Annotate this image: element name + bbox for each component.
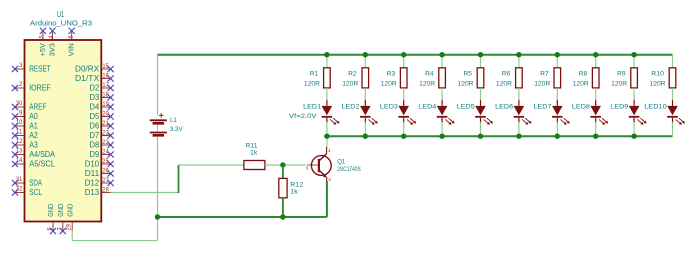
svg-text:2SC1740S: 2SC1740S — [337, 166, 361, 173]
U1 left pin A0 (pin 9) — [12, 109, 38, 121]
wire LED9 to cathode rail — [633, 122, 635, 136]
svg-text:R1: R1 — [310, 70, 319, 77]
U1 left pin A1 (pin 10) — [12, 119, 38, 131]
U1 bottom pin GND (pin 6) — [47, 204, 56, 234]
U1 right pin D1/TX (pin 16) — [75, 72, 113, 83]
svg-text:120R: 120R — [496, 80, 512, 87]
wire rail to R4 — [441, 55, 443, 68]
svg-text:14: 14 — [16, 157, 23, 164]
led LED2 — [342, 100, 378, 125]
svg-text:6: 6 — [47, 227, 54, 231]
svg-text:IOREF: IOREF — [29, 84, 51, 93]
U1 right pin D5 (pin 20) — [90, 110, 114, 121]
U1 top pin 3V3 (pin 4) — [48, 28, 56, 56]
svg-text:A4/SDA: A4/SDA — [29, 150, 55, 159]
svg-text:AREF: AREF — [29, 103, 46, 112]
junction cathode rail column LED5 — [478, 134, 483, 139]
svg-text:SDA: SDA — [29, 179, 42, 188]
U1 right pin D6 (pin 21) — [90, 120, 114, 131]
svg-text:R4: R4 — [425, 70, 434, 77]
svg-text:D3: D3 — [90, 93, 100, 102]
wire rail to R8 — [595, 55, 597, 68]
svg-text:R12: R12 — [290, 181, 303, 188]
battery L1 3.3V — [150, 113, 183, 135]
svg-text:1k: 1k — [250, 149, 258, 156]
svg-text:D0/RX: D0/RX — [75, 65, 100, 74]
wire battery negative down — [157, 136, 159, 217]
svg-text:15: 15 — [102, 63, 109, 70]
svg-text:5: 5 — [39, 35, 46, 39]
wire R4 to LED4 — [441, 88, 443, 100]
svg-text:12: 12 — [16, 138, 23, 145]
U1 right pin D12 (pin 27) — [85, 177, 114, 188]
U1 right pin D0/RX (pin 15) — [75, 63, 113, 74]
svg-text:7: 7 — [56, 227, 63, 231]
svg-text:8: 8 — [67, 35, 74, 39]
led LED5 — [457, 100, 493, 125]
svg-text:Q1: Q1 — [337, 158, 345, 165]
svg-text:2: 2 — [19, 81, 23, 88]
transistor Q1 2SC1740S — [306, 147, 362, 183]
svg-text:9: 9 — [19, 109, 23, 116]
svg-text:D2: D2 — [90, 84, 100, 93]
wire rail to R9 — [633, 55, 635, 68]
wire R7 to LED7 — [556, 88, 558, 100]
svg-text:R6: R6 — [502, 70, 511, 77]
svg-text:LED9: LED9 — [610, 104, 628, 111]
junction top rail column R5 — [478, 52, 483, 57]
wire R10 to LED10 — [672, 88, 674, 100]
svg-text:D12: D12 — [85, 179, 100, 188]
U1 top pin VIN (pin 8) — [67, 28, 75, 56]
U1 right pin D2 (pin 17) — [90, 82, 114, 93]
svg-text:D4: D4 — [90, 103, 100, 112]
resistor R11 1k — [244, 142, 265, 169]
led LED10 — [644, 100, 685, 125]
resistor R8 120R — [573, 68, 599, 88]
svg-text:120R: 120R — [573, 80, 589, 87]
wire rail to R6 — [518, 55, 520, 68]
svg-text:22: 22 — [102, 129, 109, 136]
led LED8 — [572, 100, 608, 125]
bottom ground rail — [158, 182, 327, 218]
U1 bottom pin GND (pin 29) — [66, 204, 75, 231]
svg-text:120R: 120R — [534, 80, 550, 87]
U1 right pin D10 (pin 25) — [85, 158, 114, 169]
U1 left pin A4/SDA (pin 13) — [12, 147, 55, 159]
svg-text:26: 26 — [102, 167, 109, 174]
svg-text:27: 27 — [102, 177, 109, 184]
junction cathode rail column LED7 — [555, 134, 560, 139]
wire R8 to LED8 — [595, 88, 597, 100]
led LED6 — [495, 100, 531, 125]
U1 left pin RESET (pin 3) — [12, 62, 51, 74]
resistor R6 120R — [496, 68, 522, 88]
svg-text:3V3: 3V3 — [49, 43, 56, 56]
led LED1 — [289, 100, 340, 125]
wire R9 to LED9 — [633, 88, 635, 100]
wire Q1 collector to cathode rail — [326, 136, 328, 147]
svg-text:D6: D6 — [90, 122, 100, 131]
wire D13 to R11 net — [111, 165, 244, 193]
wire LED10 to cathode rail — [672, 122, 674, 136]
U1 left pin A5/SCL (pin 14) — [12, 157, 55, 169]
svg-text:R7: R7 — [540, 70, 549, 77]
svg-text:VIN: VIN — [69, 43, 76, 56]
U1 right pin D9 (pin 24) — [90, 148, 114, 159]
resistor R9 120R — [611, 68, 637, 88]
svg-text:1k: 1k — [290, 188, 298, 195]
svg-text:120R: 120R — [381, 80, 397, 87]
svg-text:R2: R2 — [348, 70, 357, 77]
wire R3 to LED3 — [403, 88, 405, 100]
U1 left pin SDA (pin 31) — [12, 176, 42, 188]
U1 right pin D4 (pin 19) — [90, 101, 114, 112]
resistor R2 120R — [342, 68, 368, 88]
junction top rail column R1 — [324, 52, 329, 57]
svg-text:LED8: LED8 — [572, 104, 590, 111]
led cathode rail — [327, 135, 673, 137]
svg-text:120R: 120R — [342, 80, 358, 87]
svg-text:D8: D8 — [90, 141, 100, 150]
svg-text:D9: D9 — [90, 150, 100, 159]
svg-text:11: 11 — [16, 128, 23, 135]
svg-text:120R: 120R — [419, 80, 435, 87]
resistor R1 120R — [304, 68, 330, 88]
svg-text:R10: R10 — [651, 70, 664, 77]
svg-text:LED10: LED10 — [644, 104, 667, 111]
junction node R11/R12/Q1 base — [280, 162, 285, 167]
U1 left pin A2 (pin 11) — [12, 128, 38, 140]
svg-text:R5: R5 — [464, 70, 473, 77]
junction cathode rail column LED8 — [593, 134, 598, 139]
svg-text:A1: A1 — [29, 122, 38, 131]
U1 right pin D13 (pin 28) — [85, 186, 111, 197]
svg-text:D13: D13 — [85, 188, 100, 197]
svg-text:A5/SCL: A5/SCL — [29, 160, 55, 169]
wire rail to R1 — [326, 55, 328, 68]
resistor R12 1k — [279, 178, 304, 197]
svg-text:L1: L1 — [170, 117, 177, 124]
svg-text:D11: D11 — [85, 169, 100, 178]
svg-text:19: 19 — [102, 101, 109, 108]
resistor R3 120R — [381, 68, 407, 88]
wire R11 to node base — [265, 164, 306, 166]
svg-text:D10: D10 — [85, 160, 100, 169]
resistor R5 120R — [458, 68, 484, 88]
svg-text:20: 20 — [102, 110, 109, 117]
U1 right pin D7 (pin 22) — [90, 129, 114, 140]
svg-text:LED2: LED2 — [342, 104, 360, 111]
svg-text:+5V: +5V — [40, 43, 47, 57]
wire LED7 to cathode rail — [556, 122, 558, 136]
svg-text:16: 16 — [102, 72, 109, 79]
svg-text:1: 1 — [328, 148, 331, 154]
junction cathode rail column LED2 — [363, 134, 368, 139]
junction cathode rail / Q1 collector — [324, 134, 329, 139]
svg-text:D1/TX: D1/TX — [75, 74, 100, 83]
U1 left pin A3 (pin 12) — [12, 138, 38, 150]
svg-text:21: 21 — [102, 120, 109, 127]
wire R2 to LED2 — [364, 88, 366, 100]
junction top rail column R4 — [439, 52, 444, 57]
resistor R4 120R — [419, 68, 445, 88]
svg-text:RESET: RESET — [29, 65, 51, 74]
junction top rail column R8 — [593, 52, 598, 57]
U1 top pin +5V (pin 5) — [39, 28, 47, 56]
wire battery positive to top rail — [157, 55, 159, 115]
wire LED1 to cathode rail — [326, 122, 328, 136]
svg-text:30: 30 — [16, 100, 23, 107]
svg-text:24: 24 — [102, 148, 109, 155]
wire R1 to LED1 — [326, 88, 328, 100]
junction battery/ground node — [155, 214, 160, 219]
svg-text:GND: GND — [48, 204, 55, 217]
resistor R10 120R — [650, 68, 676, 88]
svg-text:LED4: LED4 — [418, 104, 436, 111]
wire node to R12 — [282, 165, 284, 178]
wire LED6 to cathode rail — [518, 122, 520, 136]
svg-text:23: 23 — [102, 139, 109, 146]
wire R5 to LED5 — [480, 88, 482, 100]
led LED9 — [610, 100, 646, 125]
junction cathode rail column LED3 — [401, 134, 406, 139]
svg-text:Arduino_UNO_R3: Arduino_UNO_R3 — [30, 18, 92, 27]
svg-text:2: 2 — [328, 177, 331, 183]
svg-text:LED5: LED5 — [457, 104, 475, 111]
U1 left pin SCL (pin 32) — [12, 185, 42, 197]
svg-text:13: 13 — [16, 147, 23, 154]
svg-text:A2: A2 — [29, 131, 38, 140]
svg-text:A0: A0 — [29, 112, 38, 121]
svg-text:LED7: LED7 — [534, 104, 552, 111]
svg-text:D7: D7 — [90, 131, 100, 140]
wire R12 to ground rail — [282, 198, 284, 217]
wire R6 to LED6 — [518, 88, 520, 100]
junction top rail column R2 — [363, 52, 368, 57]
wire rail to R10 — [672, 55, 674, 68]
junction top rail column R3 — [401, 52, 406, 57]
svg-text:3.3V: 3.3V — [170, 126, 183, 133]
svg-text:SCL: SCL — [29, 188, 42, 197]
junction top rail column R9 — [631, 52, 636, 57]
svg-text:3: 3 — [19, 62, 23, 69]
junction R12/ground rail — [280, 214, 285, 219]
svg-text:120R: 120R — [650, 80, 666, 87]
svg-text:R9: R9 — [617, 70, 626, 77]
svg-text:32: 32 — [16, 185, 23, 192]
svg-text:10: 10 — [16, 119, 23, 126]
wire rail to R2 — [364, 55, 366, 68]
svg-text:LED1: LED1 — [303, 104, 321, 111]
IC U1 Arduino_UNO_R3 body — [25, 10, 102, 221]
svg-text:LED3: LED3 — [380, 104, 398, 111]
svg-text:LED6: LED6 — [495, 104, 513, 111]
U1 bottom pin GND (pin 7) — [56, 204, 65, 234]
wire LED4 to cathode rail — [441, 122, 443, 136]
junction cathode rail column LED4 — [439, 134, 444, 139]
svg-text:A3: A3 — [29, 141, 38, 150]
svg-text:120R: 120R — [611, 80, 627, 87]
junction cathode rail column LED9 — [631, 134, 636, 139]
led LED4 — [418, 100, 454, 125]
top power rail — [158, 54, 673, 56]
wire LED8 to cathode rail — [595, 122, 597, 136]
svg-text:R8: R8 — [579, 70, 588, 77]
U1 right pin D8 (pin 23) — [90, 139, 114, 150]
svg-text:31: 31 — [16, 176, 23, 183]
svg-text:18: 18 — [102, 91, 109, 98]
svg-text:D5: D5 — [90, 112, 100, 121]
svg-text:25: 25 — [102, 158, 109, 165]
svg-text:120R: 120R — [304, 80, 320, 87]
resistor R7 120R — [534, 68, 560, 88]
svg-text:GND: GND — [58, 204, 65, 217]
svg-text:GND: GND — [67, 204, 74, 217]
U1 left pin IOREF (pin 2) — [12, 81, 51, 93]
led LED3 — [380, 100, 416, 125]
svg-text:R3: R3 — [387, 70, 396, 77]
svg-text:17: 17 — [102, 82, 109, 89]
U1 right pin D11 (pin 26) — [85, 167, 114, 178]
svg-text:R11: R11 — [246, 142, 258, 149]
svg-text:120R: 120R — [458, 80, 474, 87]
U1 left pin AREF (pin 30) — [12, 100, 46, 112]
svg-text:4: 4 — [48, 35, 55, 39]
wire LED3 to cathode rail — [403, 122, 405, 136]
svg-text:Vf=2.0V: Vf=2.0V — [289, 113, 317, 120]
wire rail to R7 — [556, 55, 558, 68]
junction top rail column R6 — [516, 52, 521, 57]
junction top rail column R7 — [555, 52, 560, 57]
svg-text:28: 28 — [102, 186, 109, 193]
wire GND pin29 to battery negative — [72, 217, 157, 241]
junction cathode rail column LED6 — [516, 134, 521, 139]
wire LED2 to cathode rail — [364, 122, 366, 136]
svg-text:3: 3 — [306, 165, 309, 171]
U1 right pin D3 (pin 18) — [90, 91, 114, 102]
wire LED5 to cathode rail — [480, 122, 482, 136]
wire rail to R5 — [480, 55, 482, 68]
wire rail to R3 — [403, 55, 405, 68]
led LED7 — [534, 100, 570, 125]
svg-text:29: 29 — [66, 224, 73, 231]
